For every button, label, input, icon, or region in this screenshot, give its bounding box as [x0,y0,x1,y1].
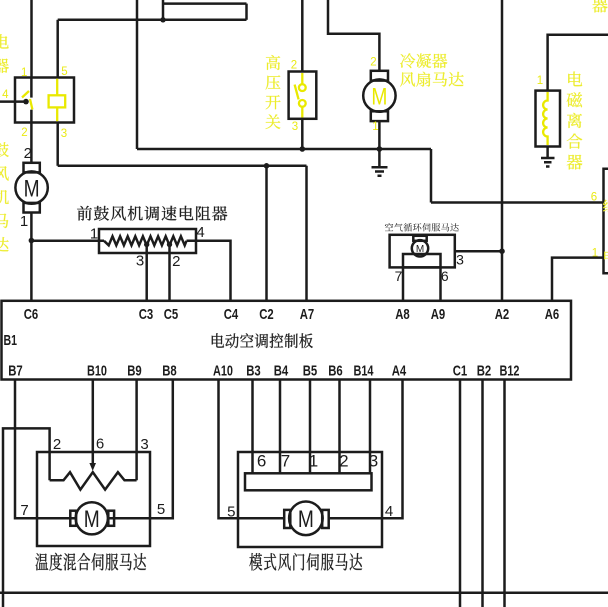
control board title 电动空调控制板 [212,333,313,348]
svg-text:4: 4 [385,503,393,520]
svg-text:3: 3 [136,253,144,270]
svg-text:M: M [84,506,100,533]
svg-text:1: 1 [537,75,543,87]
pressure switch S1 box [289,72,317,119]
relay K1 coil (yellow) [49,95,66,107]
svg-text:3: 3 [140,436,148,453]
temp servo motor body [76,502,108,534]
svg-text:3: 3 [369,452,378,471]
svg-text:A8: A8 [395,306,410,323]
wire: board pin B8 to temp servo pin 5 [108,380,173,519]
yellow glyph at top right corner (clipped) [592,0,607,12]
svg-text:B3: B3 [246,363,261,380]
wire: board pin C1 down to bottom edge [459,380,462,607]
svg-text:A2: A2 [495,306,510,323]
svg-text:B12: B12 [500,363,520,380]
svg-text:B8: B8 [162,363,177,380]
svg-text:A10: A10 [213,363,233,380]
resistor R1 box [99,229,196,253]
condenser fan motor M2 label 冷凝器 风扇马达 (yellow) [400,53,447,68]
svg-text:3: 3 [292,121,298,133]
wire: resistor pin 4 to board pin C4 [187,241,231,302]
temp servo wiper arrowhead [89,463,96,471]
wire: board pin A10 to mode servo pin 5 [219,380,285,519]
relay K1 coil lead bottom (yellow) [56,107,58,121]
node: junction at C2 branch [264,163,270,169]
mode servo motor body [289,502,323,536]
wire: battery feed to relay pin 1 [30,0,33,78]
svg-text:A4: A4 [392,363,407,380]
ground symbol (condenser motor) [372,167,388,175]
wire: A2 feed from top edge down to board [501,0,504,302]
wire: board pin B5 to mode servo contact 1 [309,380,312,474]
blower motor M1 top brush [24,163,40,173]
right component (cut off at edge) box [604,169,608,273]
wire: node to resistor pin 1 [31,240,104,243]
wire: clutch to ground [546,147,549,159]
temp servo box [37,452,150,546]
wire: right component pin 1 to board pin A6 [552,258,604,302]
air recirculation servo box [390,235,455,268]
condenser fan motor M2 top brush [371,71,388,81]
temp servo label 温度混合伺服马达 [36,553,147,571]
right component inner glyphs (yellow, clipped) [603,200,608,213]
wire: board pin B9 to temp servo pin 3 [135,380,138,481]
wire: vertical feed at x=137 down to bus [136,0,139,149]
svg-text:B14: B14 [354,363,374,380]
wire: board pin B2 down to bottom edge [481,380,484,607]
svg-text:B4: B4 [274,363,289,380]
svg-text:2: 2 [24,145,32,162]
svg-text:1: 1 [90,226,98,243]
wire: air servo pin 7 to board pin A8 [402,267,405,302]
wire: air servo pin 6 to board pin A9 [439,267,442,302]
svg-text:B7: B7 [8,363,23,380]
svg-text:6: 6 [257,452,266,471]
mode servo label 模式风门伺服马达 [249,553,362,571]
node: junction A2 / air servo pin 3 [499,248,505,254]
air recirculation servo label 空气循环伺服马达 [385,223,459,232]
wire: hook up segment at x=246.5 [245,4,248,20]
wire: board pin A4 to mode servo pin 4 [329,380,403,519]
pressure switch S1 contacts (yellow) [301,73,303,84]
temp servo potentiometer zigzag [50,472,137,489]
control board box 电动空调控制板 [2,301,572,380]
temp servo motor left brush [70,511,76,526]
node: resistor tap 3 [144,242,149,247]
mode servo motor left brush [284,510,290,528]
svg-text:2: 2 [291,60,297,72]
wire: board pin B7 to temp servo pin 7 [15,380,76,519]
svg-text:7: 7 [281,452,290,471]
wire: board pin B10 to temp servo pin 6 wiper [92,380,95,465]
svg-text:1: 1 [309,452,318,471]
wire: temp servo pin 2 to bottom ground bus [3,428,50,607]
svg-text:2: 2 [339,452,348,471]
svg-text:B6: B6 [328,363,343,380]
node: junction blower/resistor [29,238,35,244]
relay K1 partial vertical label (yellow, clipped at left edge) [0,34,9,73]
wire: condenser motor pin 1 to ground [378,121,381,167]
svg-text:3: 3 [61,128,67,140]
svg-text:M: M [371,83,387,110]
svg-text:5: 5 [227,503,235,520]
svg-text:C5: C5 [164,306,179,323]
wire: relay pin 2 down to blower motor [30,122,33,162]
relay K1 pin 1 contact stub [30,78,33,98]
wire: pressure switch to bus y=149 [301,119,304,149]
svg-text:M: M [298,506,314,533]
svg-text:6: 6 [96,436,104,453]
svg-text:7: 7 [395,268,403,284]
svg-text:4: 4 [196,224,204,241]
blower motor M1 body [15,171,47,203]
wire: board pin B14 to mode servo contact 3 [369,380,372,474]
wire: board pin B4 to mode servo contact 7 [279,380,282,474]
node: resistor tap 2 [167,242,172,247]
pressure switch S1 label 高压开关 (yellow) [266,55,281,129]
svg-text:6: 6 [441,268,449,284]
svg-text:3: 3 [456,252,464,268]
svg-text:A7: A7 [300,306,315,323]
mode servo motor right brush [322,510,329,528]
svg-text:B1: B1 [4,332,18,349]
wire: horizontal bus y=149 [137,148,431,151]
svg-text:A6: A6 [545,306,560,323]
svg-text:M: M [24,175,40,202]
air recirculation servo motor brush [413,236,426,241]
svg-text:2: 2 [172,253,180,270]
svg-text:C2: C2 [259,306,274,323]
svg-text:B5: B5 [303,363,318,380]
node: junction pressure switch on bus [300,146,306,152]
svg-text:2: 2 [21,127,27,139]
clutch L1 box [536,91,561,147]
svg-text:A9: A9 [431,306,446,323]
ground symbol (clutch) [541,158,555,167]
svg-text:5: 5 [61,66,67,78]
node: junction condenser motor on bus [377,146,383,152]
mode servo contact strip rect [245,473,372,490]
wire: blower motor pin 1 down to node [30,212,33,302]
wire: clutch feed from right edge [548,35,608,91]
svg-text:C4: C4 [224,306,239,323]
blower motor vertical label (yellow, clipped at left edge) [0,142,9,251]
wire: bottom ground bus [0,592,608,595]
wire: drop to board pin C2 [265,166,268,302]
wire: hook horizontal y=3.6 [163,2,247,5]
wire: relay coil supply horizontal y=19.8 [58,19,247,22]
condenser fan motor M2 body [363,79,395,111]
svg-text:6: 6 [591,192,597,204]
svg-text:B9: B9 [127,363,142,380]
wire: feed to pressure switch from top [301,0,304,72]
clutch L1 coil (yellow) [543,92,548,145]
node: junction at 163,19.8 [160,17,165,22]
svg-text:B10: B10 [87,363,107,380]
wire: drop to board pin A7 [305,166,308,302]
mode servo box [238,452,382,547]
air recirculation servo motor body [412,240,428,256]
blower motor M1 bottom brush [24,203,40,213]
relay K1 (blower relay) box [15,78,74,123]
svg-text:1: 1 [372,121,378,133]
relay K1 pin 4 wire from left edge [0,100,26,103]
wire: board pin B6 to mode servo contact 2 [338,380,341,474]
relay K1 coil lead top (yellow) [56,79,58,96]
wire: board pin B12 down to bottom edge [503,380,506,607]
wire: relay pin 3 down [56,122,59,165]
air recirculation servo slider rect [403,254,441,267]
svg-text:2: 2 [370,57,376,69]
wire: feed to condenser fan motor [328,0,379,71]
wire: resistor tap 2 down to board pin C5 [168,245,171,303]
wire: air servo pin 3 to A2 node [455,250,502,253]
svg-text:2: 2 [53,436,61,453]
svg-text:C1: C1 [453,363,468,380]
relay K1 switch blade (yellow) [22,91,32,110]
node: relay common contact [23,99,29,105]
clutch L1 label 电磁离合器 (yellow) [567,72,583,170]
svg-text:5: 5 [157,501,165,518]
resistor R1 element zigzag [104,236,187,245]
resistor R1 label text 前鼓风机调速电阻器 [77,206,227,221]
wire: board pin B3 to mode servo contact 6 [251,380,254,474]
condenser fan motor M2 bottom brush [371,111,388,121]
svg-text:C3: C3 [139,306,154,323]
wire: horizontal y=202.5 to right component pin 6 [431,201,604,204]
svg-text:C6: C6 [24,306,39,323]
wire: relay pin 5 drop [56,20,59,78]
svg-text:1: 1 [21,67,27,79]
svg-text:B2: B2 [477,363,492,380]
svg-text:4: 4 [2,89,9,101]
svg-text:1: 1 [20,213,28,230]
svg-text:7: 7 [20,502,28,519]
wire: bus corner down at x=431 [430,149,433,203]
wire: horizontal y=165.8 to A7 [58,165,307,168]
relay K1 pin 2 contact stub [30,110,33,123]
wire: feed at x=163 down to relay coil bus [162,0,165,20]
temp servo motor right brush [108,511,114,526]
wire: resistor tap 3 down to board pin C3 [145,245,148,303]
